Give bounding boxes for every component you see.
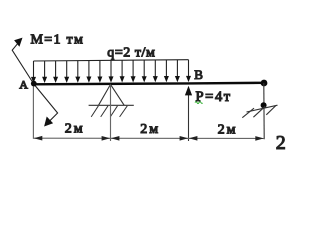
distributed load q: 15 down arrows (31, 60, 191, 83)
dimension arrowheads span 2 (111, 136, 188, 141)
dimension arrowheads span 1 (34, 136, 110, 141)
grammar squiggle under P (195, 102, 203, 104)
svg-text:2: 2 (276, 132, 286, 154)
svg-text:2м: 2м (140, 122, 160, 137)
extension line through middle support (110, 85, 112, 141)
pinned support: hatch strokes (91, 106, 127, 117)
node A dot (31, 81, 37, 87)
svg-text:В: В (194, 67, 203, 82)
extension line at A (32, 87, 34, 139)
beam AB (32, 83, 265, 85)
dimension line (33, 137, 264, 139)
right end node dot (261, 80, 268, 87)
svg-text:М=1 тм: М=1 тм (31, 33, 85, 48)
right support hatch strokes (242, 106, 275, 118)
force P up arrow at B (185, 86, 192, 141)
moment M1 lower arc arm with arrowhead (34, 84, 58, 127)
svg-text:2м: 2м (65, 121, 85, 136)
distributed load q: top line (34, 60, 189, 61)
right support lower hinge dot (261, 102, 267, 108)
pinned support at middle: triangle (99, 84, 125, 105)
pinned support: ground base line (89, 104, 134, 106)
svg-text:q=2 т/м: q=2 т/м (107, 46, 155, 61)
moment M1 upper arc arm with arrowhead (12, 38, 34, 84)
dimension arrowheads span 3 (189, 136, 264, 141)
pendulum link of right support (263, 83, 265, 139)
right support ground line (247, 105, 278, 112)
svg-text:2м: 2м (218, 122, 238, 137)
svg-text:А: А (19, 78, 28, 92)
